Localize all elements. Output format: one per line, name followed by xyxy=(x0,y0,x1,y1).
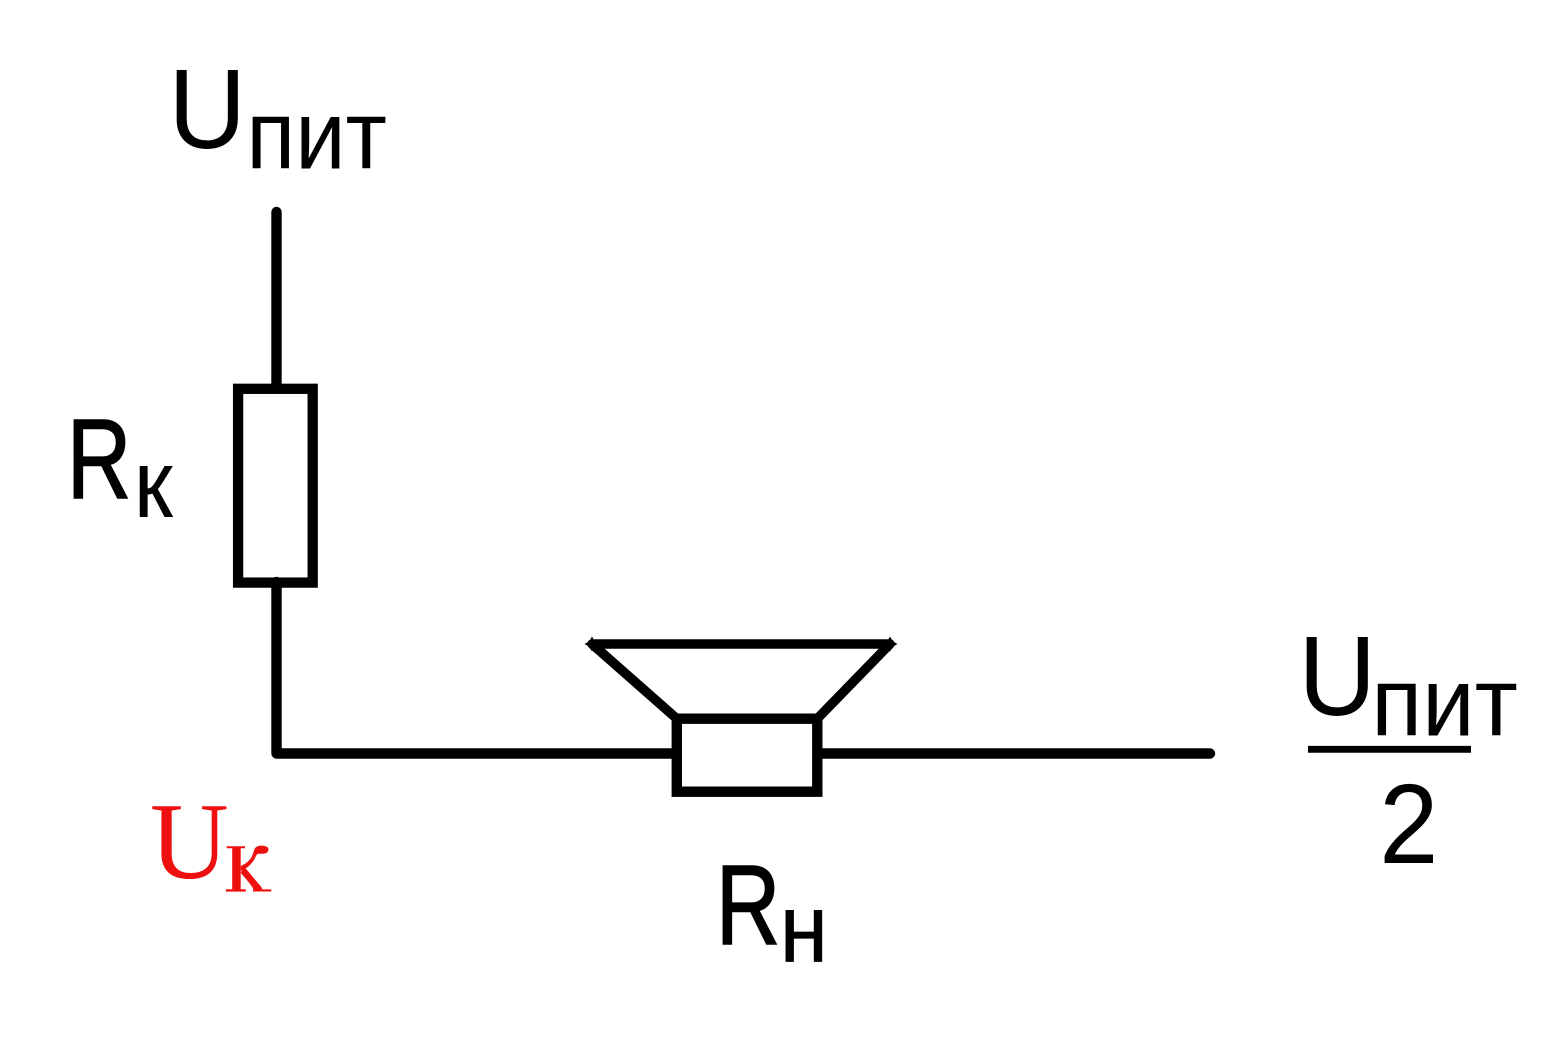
svg-text:н: н xyxy=(780,874,828,983)
svg-text:U: U xyxy=(168,47,246,173)
svg-text:R: R xyxy=(67,396,131,523)
speaker load Rн : cone (trapezoid) xyxy=(592,644,890,719)
node Uпит/2 output label : numerator Uпит xyxy=(1298,614,1517,757)
svg-text:к: к xyxy=(134,430,174,538)
svg-text:пит: пит xyxy=(246,80,387,189)
wire from Uпит down to resistor Rк xyxy=(271,212,281,388)
svg-text:U: U xyxy=(150,781,229,902)
svg-text:R: R xyxy=(716,842,780,969)
svg-text:пит: пит xyxy=(1371,649,1518,757)
node Uк label (red) xyxy=(150,781,271,902)
marker dot at cone top-right vertex xyxy=(883,637,898,652)
speaker load Rн : coil rectangle xyxy=(677,719,818,792)
resistor Rк body xyxy=(238,389,313,583)
svg-text:U: U xyxy=(1298,614,1376,740)
node Uпит supply label xyxy=(168,47,387,190)
label Rн xyxy=(716,842,828,983)
wire from Rк bottom through corner node Uк, horizontal to Uпит/2 output xyxy=(277,582,1211,754)
label Rк xyxy=(67,396,174,538)
svg-text:2: 2 xyxy=(1379,762,1438,888)
marker dot at cone top-left vertex xyxy=(585,637,600,652)
fraction bar of Uпит/2 xyxy=(1308,746,1471,753)
denominator 2 of Uпит/2 xyxy=(1379,762,1438,888)
